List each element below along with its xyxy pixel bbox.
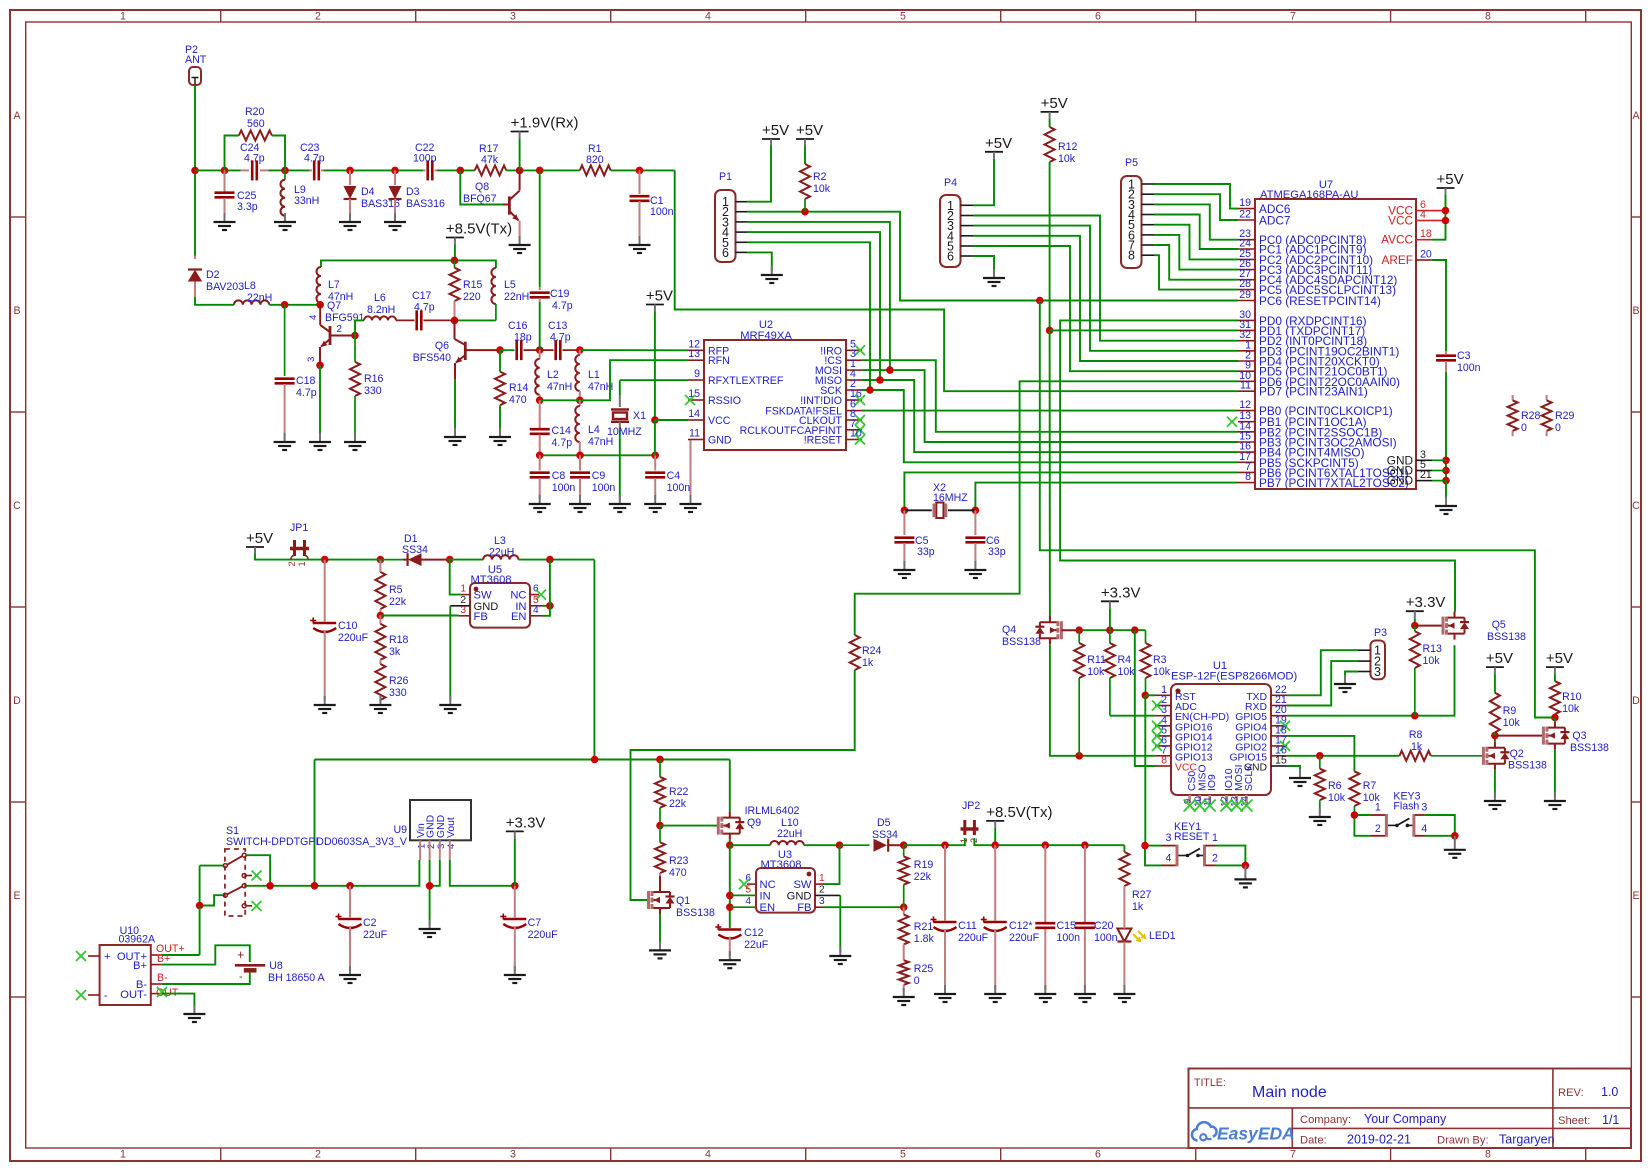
- svg-text:4.7p: 4.7p: [552, 300, 573, 312]
- wire P5.5 to U7: [1154, 225, 1238, 260]
- svg-text:FB: FB: [474, 611, 488, 623]
- svg-text:4: 4: [745, 896, 751, 907]
- resistor R17: [475, 165, 506, 175]
- svg-text:8: 8: [1245, 471, 1251, 483]
- svg-text:3: 3: [510, 11, 516, 23]
- svg-text:2: 2: [819, 884, 825, 895]
- svg-text:7: 7: [1290, 11, 1296, 23]
- connector P3: [1371, 641, 1386, 680]
- capacitor C13: [542, 349, 554, 351]
- svg-text:+3.3V: +3.3V: [1406, 594, 1446, 611]
- connector P4: [940, 195, 961, 267]
- inductor L3: [483, 555, 518, 559]
- svg-text:B-: B-: [157, 972, 168, 984]
- svg-text:4: 4: [1421, 823, 1427, 835]
- svg-text:REV:: REV:: [1558, 1087, 1584, 1099]
- svg-text:ANT: ANT: [185, 54, 207, 66]
- svg-text:1.0: 1.0: [1601, 1085, 1618, 1099]
- wire P5.6 to U7: [1154, 235, 1238, 270]
- capacitor C11: [944, 845, 946, 920]
- resistor R11: [1078, 630, 1080, 643]
- svg-text:BAS316: BAS316: [406, 198, 445, 210]
- junction: [900, 841, 908, 849]
- svg-text:C14: C14: [552, 425, 572, 437]
- junction: [1551, 714, 1559, 722]
- svg-text:3: 3: [306, 357, 317, 362]
- svg-text:C2: C2: [363, 917, 377, 929]
- svg-text:GND: GND: [708, 435, 732, 447]
- ground at C12*: [994, 985, 996, 994]
- ground at P4: [993, 269, 995, 278]
- wire P5.7 to U7: [1154, 245, 1238, 280]
- svg-text:AREF: AREF: [1382, 253, 1413, 267]
- svg-text:3: 3: [1166, 832, 1172, 844]
- ground at C1: [639, 236, 641, 245]
- resistor R29: [1546, 395, 1548, 400]
- wire GPIO0 to R7: [1287, 736, 1354, 771]
- junction: [941, 841, 949, 849]
- svg-text:L6: L6: [374, 292, 386, 304]
- svg-text:1: 1: [460, 584, 466, 595]
- svg-text:C16: C16: [508, 320, 528, 332]
- junction: [726, 903, 734, 911]
- diode D2 BAV203: [194, 256, 196, 259]
- wire P4.3 to PD3: [973, 226, 1238, 351]
- IC U3 MT3608 box: [756, 868, 815, 913]
- svg-text:-: -: [104, 990, 108, 1002]
- U1 pin 15 GND: [1271, 765, 1287, 767]
- junction: [316, 301, 324, 309]
- ground at Q3: [1554, 792, 1556, 801]
- wire P4.1: [973, 159, 994, 206]
- junction: [1442, 477, 1450, 485]
- battery+ rail: [270, 860, 420, 886]
- wire: [1414, 618, 1416, 625]
- svg-text:1: 1: [120, 1149, 126, 1161]
- transistor Q4 BSS138: [1049, 616, 1051, 622]
- U2 pin 4 MISO: [846, 379, 862, 381]
- resistor R21: [903, 907, 905, 914]
- wire rail: [1079, 629, 1145, 631]
- LED LED1: [1117, 929, 1131, 942]
- U7 pin 16 PB4: [1238, 451, 1255, 453]
- svg-text:10k: 10k: [1153, 666, 1171, 678]
- ground at C25: [224, 213, 226, 222]
- U7 pin 17 PB5: [1238, 461, 1255, 463]
- wire R4 to EN: [1110, 715, 1155, 717]
- U1 pin 16 GPIO15: [1271, 755, 1287, 757]
- svg-text:+: +: [237, 948, 244, 962]
- resistor R5: [375, 572, 385, 609]
- junction: [1075, 626, 1083, 634]
- U1 pin 21 RXD: [1271, 705, 1287, 707]
- wire FSKDATA to PB0: [862, 410, 1238, 412]
- wire U3 GND: [839, 895, 841, 952]
- U5 pin 4 EN: [530, 615, 543, 617]
- junction: [991, 841, 999, 849]
- wire B+ to battery: [162, 945, 250, 964]
- svg-text:ATMEGA168PA-AU: ATMEGA168PA-AU: [1260, 189, 1358, 201]
- wire P4.5 to PD5: [973, 246, 1238, 371]
- capacitor C15: [1044, 845, 1046, 922]
- svg-text:10k: 10k: [1423, 655, 1441, 667]
- svg-text:MRF49XA: MRF49XA: [740, 330, 792, 342]
- svg-text:100n: 100n: [1457, 362, 1481, 374]
- wire B- to battery: [162, 973, 250, 985]
- wire U3 SW: [823, 845, 840, 884]
- svg-text:L4: L4: [588, 424, 600, 436]
- U1 pin 1 RST: [1155, 694, 1171, 696]
- wire PD1 row: [1050, 329, 1238, 331]
- svg-text:Main node: Main node: [1252, 1084, 1327, 1101]
- wire rail to Q9: [729, 760, 731, 812]
- svg-text:R13: R13: [1423, 643, 1443, 655]
- svg-text:1.8k: 1.8k: [914, 933, 935, 945]
- svg-text:33p: 33p: [988, 546, 1006, 558]
- wire RXD to P3.2: [1287, 661, 1358, 705]
- ground at R26: [379, 696, 381, 705]
- wire: [729, 840, 731, 846]
- svg-text:100n: 100n: [667, 482, 691, 494]
- svg-text:47nH: 47nH: [547, 381, 572, 393]
- svg-text:Flash: Flash: [1393, 801, 1419, 813]
- U1 pin 2 ADC: [1155, 705, 1171, 707]
- U2 pin 10 !RESET: [846, 439, 862, 441]
- wire Q9 to L10: [730, 844, 771, 846]
- IC U9 DD0603SA_3V3_V box: [410, 800, 471, 840]
- svg-text:SS34: SS34: [872, 829, 898, 841]
- wire: [539, 170, 541, 287]
- wire: [424, 319, 455, 321]
- svg-text:Company:: Company:: [1300, 1114, 1351, 1126]
- junction: [546, 556, 554, 564]
- wire P5.1 to U7: [1154, 184, 1238, 209]
- svg-text:0: 0: [1521, 422, 1527, 434]
- wire: [518, 559, 594, 561]
- wire: [1432, 470, 1446, 472]
- svg-text:R3: R3: [1153, 654, 1167, 666]
- wire: [355, 320, 364, 335]
- U5 pin 1 SW: [461, 594, 470, 596]
- wire R8 to Q2 gate: [1431, 755, 1483, 757]
- junction: [1442, 467, 1450, 475]
- svg-text:R20: R20: [245, 106, 265, 118]
- svg-text:A: A: [1632, 110, 1640, 122]
- resistor R16: [354, 336, 356, 362]
- svg-text:6: 6: [1095, 11, 1101, 23]
- wire: [269, 169, 310, 171]
- U2 pin 13 RFN: [688, 359, 704, 361]
- U2 pin 9 RFXTLEXTREF: [688, 379, 704, 381]
- ground at R6: [1319, 808, 1321, 817]
- wire: [195, 169, 241, 171]
- svg-text:P4: P4: [944, 177, 957, 189]
- ground at Q6 emitter: [454, 428, 456, 437]
- svg-text:4: 4: [1420, 209, 1426, 221]
- svg-text:C19: C19: [550, 288, 570, 300]
- junction: [591, 756, 599, 764]
- junction: [656, 756, 664, 764]
- capacitor C17: [415, 310, 418, 330]
- junction: [1491, 732, 1499, 740]
- wire: [611, 169, 675, 171]
- U2 pin 1 MOSI: [846, 369, 862, 371]
- IC U7 ATMEGA168PA-AU box: [1255, 199, 1416, 489]
- wire: [314, 760, 316, 886]
- svg-text:4.7p: 4.7p: [552, 437, 573, 449]
- wire P5.3 to U7: [1154, 204, 1238, 239]
- wire: [447, 559, 483, 561]
- svg-text:P3: P3: [1374, 627, 1387, 639]
- U10 pin +: [88, 955, 100, 957]
- U2 pin 2 SCK: [846, 389, 862, 391]
- svg-text:BSS138: BSS138: [1002, 636, 1041, 648]
- wire: [1109, 608, 1111, 630]
- antenna connector P2: [189, 67, 201, 85]
- wire RST net: [1145, 694, 1155, 696]
- svg-text:BSS138: BSS138: [1570, 742, 1609, 754]
- svg-text:470: 470: [669, 867, 687, 879]
- U5 pin 2 GND: [450, 605, 470, 607]
- junction: [346, 167, 354, 175]
- svg-text:4.7p: 4.7p: [550, 332, 571, 344]
- svg-text:P1: P1: [719, 171, 732, 183]
- svg-text:DD0603SA_3V3_V: DD0603SA_3V3_V: [316, 836, 408, 848]
- resistor R27: [1123, 845, 1125, 852]
- capacitor C20: [1084, 845, 1086, 922]
- svg-text:R2: R2: [813, 171, 827, 183]
- svg-text:C: C: [13, 500, 21, 512]
- svg-text:4: 4: [533, 605, 539, 616]
- junction: [801, 208, 809, 216]
- wire GPIO15 row: [1287, 755, 1400, 757]
- svg-text:D4: D4: [361, 186, 375, 198]
- capacitor C6: [974, 510, 976, 535]
- U5 pin 6 NC: [530, 594, 539, 596]
- U2 pin 14 VCC: [688, 419, 704, 421]
- junction: [346, 882, 354, 890]
- junction: [1442, 217, 1450, 225]
- svg-text:3: 3: [1374, 665, 1381, 679]
- wire Q4 source to GPIO13: [1050, 644, 1155, 756]
- U7 pin 24 PC1: [1238, 248, 1255, 250]
- title block: [1189, 1069, 1632, 1149]
- inductor L8: [234, 300, 269, 304]
- junction: [1142, 692, 1150, 700]
- capacitor C7: [514, 886, 516, 918]
- capacitor C18: [284, 305, 286, 376]
- ground at KEY3: [1454, 836, 1456, 850]
- wire PD6 to R24: [855, 381, 1238, 635]
- junction: [377, 612, 385, 620]
- junction: [536, 346, 544, 354]
- U7 pin 26 PC3: [1238, 269, 1255, 271]
- U2 pin 16 !INT!DIO: [846, 399, 862, 401]
- resistor R23: [659, 826, 661, 843]
- svg-text:Q6: Q6: [435, 340, 449, 352]
- ground at Q1: [659, 941, 661, 950]
- wire Q8 base: [460, 170, 503, 204]
- junction: [536, 397, 544, 405]
- svg-text:6: 6: [1095, 1149, 1101, 1161]
- wire P1.5 to SCK: [747, 242, 870, 390]
- svg-text:Vout: Vout: [446, 817, 457, 838]
- U1 pin 6 GPIO12: [1155, 745, 1171, 747]
- wire: [194, 85, 196, 170]
- U7 pin 15 PB3: [1238, 441, 1255, 443]
- svg-text:4.7p: 4.7p: [414, 302, 435, 314]
- svg-text:1k: 1k: [1132, 901, 1144, 913]
- capacitor C14: [539, 400, 541, 428]
- svg-text:100n: 100n: [552, 482, 576, 494]
- svg-text:10k: 10k: [1058, 153, 1076, 165]
- resistor R8: [1400, 751, 1431, 761]
- U1 pin 18 GPIO0: [1271, 735, 1287, 737]
- svg-text:330: 330: [389, 687, 407, 699]
- wire MISO to PB4: [862, 380, 1238, 452]
- wire: [543, 560, 550, 616]
- ground at C6: [974, 561, 976, 570]
- Tx power rail: [904, 844, 962, 846]
- svg-text:IRLML6402: IRLML6402: [745, 805, 800, 817]
- svg-text:21: 21: [1420, 469, 1432, 481]
- junction: [536, 167, 544, 175]
- wire: [1432, 459, 1446, 461]
- svg-text:SS34: SS34: [402, 544, 428, 556]
- svg-text:14: 14: [688, 408, 700, 420]
- junction: [221, 167, 229, 175]
- wire IN EN to +5V rail: [543, 605, 550, 607]
- junction: [426, 882, 434, 890]
- wire: [804, 844, 840, 846]
- svg-text:+3.3V: +3.3V: [1101, 584, 1141, 601]
- wire: [1432, 210, 1446, 212]
- ground at C10: [324, 696, 326, 705]
- resistor R6: [1319, 756, 1321, 769]
- svg-text:ESP-12F(ESP8266MOD): ESP-12F(ESP8266MOD): [1171, 671, 1297, 683]
- ground at Q2: [1494, 792, 1496, 801]
- junction: [457, 167, 465, 175]
- svg-text:RFXTLEXTREF: RFXTLEXTREF: [708, 375, 784, 387]
- S1 nc throw: [246, 875, 252, 877]
- junction: [351, 332, 359, 340]
- svg-text:1: 1: [1212, 832, 1218, 844]
- wire TXD to P3.1: [1287, 650, 1358, 695]
- svg-text:IO9: IO9: [1207, 774, 1218, 791]
- U3 pin 5 IN: [730, 894, 756, 896]
- battery rail: [315, 759, 730, 761]
- svg-text:100n: 100n: [1094, 932, 1118, 944]
- wire: [962, 838, 965, 845]
- ground at C12: [729, 951, 731, 960]
- junction: [636, 167, 644, 175]
- svg-text:RESET: RESET: [1174, 831, 1210, 843]
- U7 pin 22 ADC7: [1238, 219, 1255, 221]
- wire !CS to PB2: [862, 360, 1238, 432]
- svg-text:4: 4: [705, 11, 711, 23]
- svg-text:E: E: [1632, 890, 1639, 902]
- ground at R16: [354, 433, 356, 442]
- svg-text:B: B: [13, 305, 20, 317]
- svg-text:C7: C7: [528, 917, 542, 929]
- svg-text:!RESET: !RESET: [804, 435, 843, 447]
- svg-text:4: 4: [308, 314, 319, 320]
- svg-text:+5V: +5V: [796, 122, 823, 139]
- svg-text:C3: C3: [1457, 350, 1471, 362]
- U10 pin -: [88, 994, 100, 996]
- U7 pin 7 PB6: [1238, 471, 1255, 473]
- S1 nc throw2: [246, 905, 252, 907]
- svg-text:10: 10: [850, 428, 862, 440]
- wire P5.8 to U7: [1154, 255, 1238, 289]
- wire U3 FB: [823, 906, 904, 908]
- resistor R1: [580, 165, 611, 175]
- junction: [576, 397, 584, 405]
- inductor L9: [284, 170, 286, 179]
- wire: [619, 430, 621, 499]
- wire P5.2 to U7: [1154, 194, 1238, 220]
- svg-text:MT3608: MT3608: [760, 859, 801, 871]
- capacitor C5: [903, 510, 905, 535]
- ground at C11: [944, 985, 946, 994]
- svg-text:Q5: Q5: [1492, 619, 1506, 631]
- svg-text:Sheet:: Sheet:: [1558, 1115, 1590, 1127]
- svg-text:19: 19: [1239, 197, 1251, 209]
- U7 pin 23 PC0: [1238, 239, 1255, 241]
- svg-text:+5V: +5V: [1546, 650, 1573, 667]
- U7 pin 30 PD0: [1238, 319, 1255, 321]
- ground at U1: [1299, 769, 1301, 778]
- wire: [563, 349, 580, 351]
- svg-text:L7: L7: [328, 279, 340, 291]
- svg-text:R22: R22: [669, 786, 689, 798]
- svg-text:PD7 (PCINT23AIN1): PD7 (PCINT23AIN1): [1259, 385, 1368, 399]
- svg-text:820: 820: [586, 154, 604, 166]
- ground at U2 GND: [690, 495, 692, 504]
- U7 pin 10 PD6: [1238, 380, 1255, 382]
- svg-text:BSS138: BSS138: [676, 907, 715, 919]
- inductor L7: [317, 267, 322, 303]
- U1 pin 14 SCLK: [1245, 795, 1248, 803]
- svg-text:22k: 22k: [914, 871, 932, 883]
- transistor Q3 BSS138: [1554, 718, 1556, 722]
- U2 pin 7 RCLKOUTFCAPFINT: [846, 429, 862, 431]
- svg-text:100n: 100n: [650, 206, 674, 218]
- wire P1.6 to ground: [747, 252, 772, 271]
- svg-text:C9: C9: [592, 470, 606, 482]
- U2 pin 11 GND: [688, 439, 704, 441]
- svg-text:20: 20: [1420, 249, 1432, 261]
- svg-text:LED1: LED1: [1149, 930, 1176, 942]
- svg-text:FB: FB: [797, 902, 811, 914]
- svg-text:5: 5: [900, 11, 906, 23]
- svg-text:SCLK: SCLK: [1244, 764, 1255, 791]
- svg-text:22uF: 22uF: [744, 939, 769, 951]
- wire: [396, 319, 415, 321]
- svg-text:+5V: +5V: [762, 122, 789, 139]
- svg-text:2: 2: [315, 11, 321, 23]
- wire: [994, 828, 996, 845]
- svg-text:A: A: [13, 110, 21, 122]
- svg-text:+5V: +5V: [1041, 95, 1068, 112]
- IC U10 03962A box: [100, 945, 151, 1005]
- svg-text:Your Company: Your Company: [1364, 1112, 1447, 1126]
- wire: [195, 297, 234, 305]
- svg-text:C8: C8: [552, 470, 566, 482]
- svg-text:15: 15: [688, 388, 700, 400]
- svg-text:C4: C4: [667, 470, 681, 482]
- wire Q4 gate rail: [1061, 629, 1079, 631]
